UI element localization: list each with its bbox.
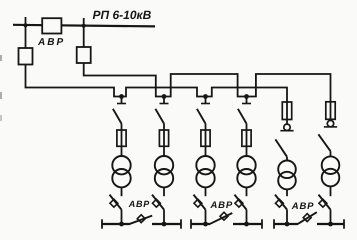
wire: branch 1 HV conductor through fuse to transformer xyxy=(121,124,123,157)
load-break switch QW5 (circle, contact bar, blade) xyxy=(284,124,290,130)
circuit breaker QF6 (blade with square) xyxy=(319,199,327,207)
svg-text:АВР: АВР xyxy=(37,37,65,48)
fuse F2 xyxy=(159,130,168,146)
bus tie switch with АВР (blade with square, normally open) xyxy=(210,213,232,224)
disconnector QS4 (stub, fixed contact bar, blade) xyxy=(246,97,248,104)
wire: branch 5 conductor to transformer xyxy=(286,157,288,161)
transformer T6 (two windings) xyxy=(322,156,340,174)
breaker Q1 (box on left feeder) xyxy=(19,48,33,65)
busbar 0.4 kV section 3b (with end tick) xyxy=(317,223,344,225)
disconnector QS2 (stub, fixed contact bar, blade) xyxy=(163,97,165,104)
fuse F6 xyxy=(326,102,335,120)
svg-text:АВР: АВР xyxy=(291,201,314,212)
node: cable tap of branch 1 xyxy=(119,94,124,99)
node: branch 1 junction with 0.4 kV bus xyxy=(119,222,124,227)
node: branch 2 junction with 0.4 kV bus xyxy=(162,222,167,227)
breaker Q2 (box on right feeder) xyxy=(77,47,91,63)
wire: branch 3 drop to 0.4 kV bus xyxy=(205,210,207,224)
wire: transformer T3 LV stub xyxy=(205,187,207,196)
node: branch 5 junction with 0.4 kV bus xyxy=(285,222,290,227)
transformer T4 (two windings) xyxy=(237,156,255,174)
wire: branch 6 conductor through fuse to switch xyxy=(330,101,332,121)
svg-text:АВР: АВР xyxy=(210,200,233,211)
node: cable tap of branch 4 xyxy=(244,94,249,99)
wire: branch 5 conductor through fuse to switch xyxy=(286,101,288,124)
node: junction of Q2 feeder with РП bus xyxy=(82,24,86,28)
wire: branch 3 HV conductor through fuse to transformer xyxy=(205,124,207,157)
wire: branch 6 drop to 0.4 kV bus xyxy=(330,210,332,224)
busbar 0.4 kV section 1b (with end tick) xyxy=(152,223,181,225)
disconnector QS1 (stub, fixed contact bar, blade) xyxy=(121,97,123,104)
svg-text:АВР: АВР xyxy=(128,199,151,209)
wire: branch 4 drop to 0.4 kV bus xyxy=(246,210,248,224)
bus tie switch with АВР (blade with square, normally open) xyxy=(130,216,152,224)
wire: branch 4 HV conductor through fuse to transformer xyxy=(246,124,248,157)
circuit breaker QF2 (blade with square) xyxy=(152,199,160,207)
circuit breaker QF4 (blade with square) xyxy=(235,199,243,207)
load-break switch QW6 (circle, contact bar, blade) xyxy=(327,120,333,126)
transformer T5 (two windings) xyxy=(278,161,296,179)
wire: transformer T2 LV stub xyxy=(163,187,165,196)
wire: transformer T6 LV stub xyxy=(330,186,332,196)
fuse F3 xyxy=(201,130,210,146)
wire: branch 2 drop to 0.4 kV bus xyxy=(163,210,165,224)
sectionalizing apparatus with АВР (box in series on РП bus) xyxy=(42,18,61,33)
transformer T1 (two windings) xyxy=(112,156,130,174)
node: branch 4 junction with 0.4 kV bus xyxy=(244,222,249,227)
wire: branch 5 drop to 0.4 kV bus xyxy=(286,210,288,224)
wire: busbar РП 6-10кВ xyxy=(13,25,155,27)
node: branch 3 junction with 0.4 kV bus xyxy=(203,222,208,227)
wire: branch 6 conductor to transformer xyxy=(330,151,332,157)
wire: cable B from Q2 feeding taps 2,4 and branch 6 xyxy=(84,63,331,102)
wire: tap from bus to breaker Q2 xyxy=(83,18,85,47)
wire: tap from bus to breaker Q1 xyxy=(25,17,27,48)
node: cable tap of branch 2 xyxy=(162,94,167,99)
busbar 0.4 kV section 1a (with end tick) xyxy=(102,223,130,225)
node: cable tap of branch 3 xyxy=(203,94,208,99)
wire: branch 2 HV conductor through fuse to transformer xyxy=(163,124,165,157)
transformer T3 (two windings) xyxy=(196,156,214,174)
busbar 0.4 kV section 2a (with end tick) xyxy=(191,223,210,225)
wire: transformer T1 LV stub xyxy=(121,187,123,196)
wire: transformer T4 LV stub xyxy=(246,187,248,196)
transformer T2 (two windings) xyxy=(155,156,173,174)
circuit breaker QF3 (blade with square) xyxy=(194,199,202,207)
fuse F1 xyxy=(117,130,126,146)
node: branch 6 junction with 0.4 kV bus xyxy=(328,222,333,227)
circuit breaker QF1 (blade with square) xyxy=(110,199,118,207)
bus tie switch with АВР (blade with square, normally open) xyxy=(298,212,317,224)
wire: transformer T5 LV stub xyxy=(286,189,288,196)
disconnector QS3 (stub, fixed contact bar, blade) xyxy=(205,97,207,104)
wire: cable A from Q1 feeding taps 1,3 and branch 5 xyxy=(26,65,288,103)
busbar 0.4 kV section 2b (with end tick) xyxy=(233,223,262,225)
busbar 0.4 kV section 3a (with end tick) xyxy=(274,223,298,225)
fuse F4 xyxy=(242,130,251,146)
fuse F5 xyxy=(282,102,291,120)
circuit breaker QF5 (blade with square) xyxy=(275,199,283,207)
svg-text:РП 6-10кВ: РП 6-10кВ xyxy=(93,8,152,22)
wire: branch 1 drop to 0.4 kV bus xyxy=(121,210,123,224)
node: junction of Q1 feeder with РП bus xyxy=(24,23,28,27)
